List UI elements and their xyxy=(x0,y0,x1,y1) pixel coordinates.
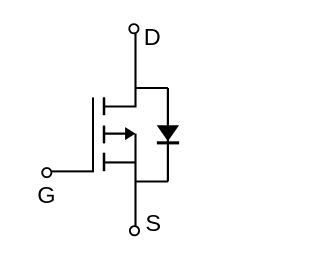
wire source channel to vertical xyxy=(104,161,136,163)
svg-text:G: G xyxy=(37,182,55,208)
diode D1 cathode bar xyxy=(157,141,179,144)
wire source vertical xyxy=(134,134,136,226)
transistor Q1 channel bar drain xyxy=(103,97,106,115)
transistor Q1 channel bar body xyxy=(103,126,106,144)
diode D1 triangle xyxy=(157,125,179,141)
body arrow line xyxy=(104,133,127,135)
wire drain vertical and to channel xyxy=(104,34,136,107)
wire diode vertical xyxy=(167,88,169,182)
svg-text:S: S xyxy=(145,210,161,236)
body arrow head xyxy=(125,127,135,140)
wire gate xyxy=(52,170,94,172)
svg-text:D: D xyxy=(144,24,161,50)
wire diode to source xyxy=(136,180,168,182)
transistor Q1 gate line xyxy=(92,97,94,171)
terminal circle S xyxy=(130,226,139,235)
terminal circle D xyxy=(129,24,138,33)
transistor Q1 channel bar source xyxy=(103,153,106,172)
wire drain branch to diode xyxy=(136,87,168,89)
terminal circle G xyxy=(42,168,51,177)
